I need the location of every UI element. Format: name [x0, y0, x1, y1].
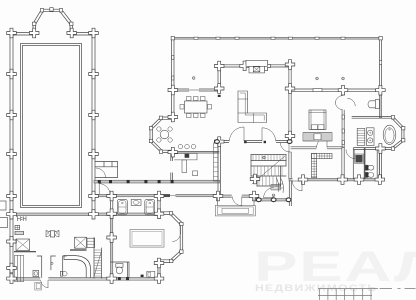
- wall veranda east post: [289, 181, 291, 206]
- washing machine utility: [33, 270, 39, 276]
- stairs main hall treads upper: [253, 155, 283, 161]
- cabinet garage: [147, 271, 155, 277]
- threshold marks utility bottom: [118, 275, 144, 281]
- wall pool hall top right segment: [71, 33, 95, 36]
- closet shelves checkered: [312, 153, 333, 177]
- grid table bottom right: [318, 289, 416, 300]
- door gap hall south: [232, 194, 242, 198]
- stairs utility ladder left: [15, 256, 24, 282]
- piers pool hall left wall: [7, 28, 17, 283]
- wall corridor south dark segment: [160, 194, 170, 197]
- symbol HH pool: [16, 216, 26, 221]
- sofa living room: [238, 91, 267, 123]
- toilet wc upper: [365, 165, 374, 170]
- round table nook: [157, 127, 173, 142]
- wall bath bay outer: [393, 116, 404, 149]
- wall living east: [289, 63, 292, 142]
- door gap rightwing south: [293, 178, 303, 182]
- symbol c utility: [51, 262, 53, 264]
- vanity between baths: [131, 200, 141, 206]
- square markers pool bay corners: [33, 8, 74, 26]
- toilet wc lower: [365, 172, 374, 177]
- door arc closet: [317, 137, 327, 147]
- bathtub west: [117, 199, 127, 214]
- stairs main hall treads mid: [254, 166, 282, 176]
- toilet garage wc: [116, 264, 123, 274]
- window marker terrace east wall: [380, 61, 382, 65]
- wall bath bay inner: [392, 119, 402, 148]
- fireplace living room: [246, 60, 268, 73]
- wall bedroomwing north: [291, 89, 382, 91]
- door gap living south east: [262, 140, 276, 143]
- bench left edge upper: [0, 201, 6, 210]
- door gap closetrow north: [317, 146, 328, 149]
- wall closetrow north: [291, 147, 343, 149]
- door sill dining north: [189, 89, 199, 91]
- wall wc garage partition: [111, 262, 129, 277]
- piers living room walls: [214, 60, 294, 147]
- wall utility rooms left block: [37, 256, 66, 277]
- watermark РЕАЛ logo text: [254, 242, 416, 290]
- wall kitchen west: [171, 152, 173, 180]
- wall pool bay octagon inner: [36, 12, 71, 33]
- door arc veranda to room: [264, 188, 274, 198]
- wall pool hall right outer: [92, 33, 95, 216]
- wall pool hall top left segment: [10, 33, 34, 36]
- bench utility east: [87, 238, 95, 247]
- wall bedroom closet divider: [342, 90, 344, 148]
- bar stools kitchen: [178, 144, 196, 149]
- door arcs bedroom double: [335, 96, 342, 110]
- wall pier bathroom west: [110, 194, 112, 214]
- bathtub oval bay: [383, 125, 396, 144]
- stairs main hall treads low: [259, 176, 277, 186]
- door arc living south west: [229, 127, 244, 141]
- bed master bedroom: [309, 110, 326, 130]
- wall bath north: [352, 116, 393, 118]
- door arc living east to stairs: [280, 143, 289, 152]
- wall pool hall bottom band: [10, 213, 159, 216]
- wall nook octagon outer: [150, 117, 174, 152]
- wall living south: [217, 141, 291, 143]
- dining table: [180, 97, 212, 118]
- wall utility curved outer: [64, 256, 91, 278]
- stairs utility break line: [94, 251, 102, 277]
- wall bath south: [354, 148, 393, 150]
- stairs main hall break line: [252, 156, 285, 184]
- wall garage bay south pier wall: [158, 262, 160, 279]
- piers pool hall right wall: [89, 28, 99, 219]
- mat hall: [271, 184, 281, 190]
- radiator strip hall west: [214, 143, 218, 181]
- door gap utility bottom entrance: [40, 277, 48, 281]
- shaft box west: [14, 239, 36, 252]
- wall pool bay octagon outer: [33, 9, 73, 33]
- table symbol butterfly: [46, 230, 59, 237]
- radiator bath: [357, 128, 365, 145]
- wall hall south: [217, 195, 255, 197]
- wall living north: [219, 65, 291, 67]
- piers corridor bathroom walls: [107, 191, 164, 283]
- stairs utility treads: [94, 250, 102, 276]
- porch steps: [215, 197, 255, 216]
- symbol shelf stack: [15, 225, 24, 234]
- vanity bath double: [366, 128, 374, 146]
- wall terrace west: [172, 37, 174, 117]
- toilet utility: [60, 271, 67, 276]
- wall terrace top edge: [172, 37, 382, 39]
- door arc utility entrance: [41, 280, 48, 287]
- wall utility curved inner: [64, 256, 86, 278]
- shower square wc: [355, 154, 364, 163]
- pool basin outer rim: [21, 44, 82, 208]
- door arc bedroom2: [292, 181, 302, 191]
- stairs main hall rails: [251, 155, 286, 186]
- door gap living south west: [229, 140, 244, 143]
- pier hall south: [213, 174, 260, 201]
- square markers garage bay: [169, 212, 183, 263]
- door gap bedroom divider double: [341, 95, 345, 110]
- door sill corridor south: [170, 195, 176, 197]
- car garage: [130, 230, 164, 248]
- wall rightwing east lower: [379, 149, 381, 180]
- square marker terrace top corners: [171, 37, 382, 40]
- wall pool hall left outer: [10, 33, 13, 280]
- wall corridor north band: [94, 180, 220, 183]
- wall living west upper: [218, 66, 220, 89]
- window markers bedroom closet wall: [342, 115, 344, 145]
- window markers terrace top line: [194, 37, 345, 39]
- bathtub east: [145, 199, 155, 214]
- stairs main curved lower flight: [277, 178, 284, 193]
- kitchen counter: [175, 153, 198, 175]
- square markers bath bay corners: [391, 116, 405, 151]
- dresser master bedroom: [303, 133, 332, 141]
- door arc living south east: [262, 128, 276, 141]
- wall utility bottom band: [10, 277, 160, 280]
- door arc hall south: [232, 197, 242, 206]
- wall terrace east: [380, 37, 382, 90]
- oval columns living south and veranda: [215, 140, 292, 202]
- wall lobby closet lines: [95, 162, 117, 178]
- threshold marks corridor north: [98, 180, 174, 183]
- door arc corridor west: [99, 184, 110, 195]
- wall wc partition: [353, 148, 365, 179]
- wall garage west: [110, 215, 112, 278]
- wall rightwing south band: [289, 178, 382, 181]
- wall veranda south band: [254, 199, 291, 201]
- terrace column dots: [192, 77, 344, 197]
- shaft box east: [70, 237, 87, 250]
- wall utility bottom fill: [10, 277, 160, 280]
- door gap kitchen west: [170, 161, 173, 173]
- window marker bedroomwing north: [313, 89, 322, 92]
- door arc lobby closet: [96, 168, 106, 178]
- wall dressing east: [379, 90, 381, 118]
- threshold marks living south: [218, 95, 266, 143]
- door leaf garage side: [173, 225, 181, 242]
- square markers nook corners: [149, 116, 162, 153]
- wall corridor south band: [94, 194, 220, 196]
- door arc bath: [346, 150, 355, 159]
- wall bedroom2 west: [289, 152, 292, 179]
- wall wc east inner: [377, 150, 379, 178]
- wall kitchen north: [174, 151, 219, 153]
- door arc dressing entry: [348, 98, 356, 106]
- wall garage bay inner: [160, 214, 180, 259]
- wall nook octagon inner: [152, 119, 174, 150]
- wall garage bay outer: [160, 212, 183, 263]
- wall closetrow divider mid: [342, 148, 345, 179]
- stairs utility rails: [94, 238, 102, 278]
- watermark НЕДВИЖИМОСТЬ text: [255, 283, 377, 293]
- pool basin inner rim: [23, 46, 80, 206]
- toilet dressing room: [368, 100, 379, 109]
- bench left edge lower: [0, 218, 8, 228]
- stairs main hall side rails: [251, 155, 286, 186]
- entrance steps utility: [35, 282, 42, 290]
- window markers terrace west wall: [172, 56, 174, 81]
- wall dining north: [172, 89, 219, 91]
- piers pool hall top wall: [29, 28, 76, 38]
- piers bedroom wing: [285, 85, 385, 184]
- wall pier bathroom east: [158, 194, 160, 214]
- door opening dining north: [189, 88, 199, 91]
- wall hall west: [218, 141, 220, 196]
- piers nook and dining: [168, 85, 178, 157]
- door gap corridor south: [170, 194, 176, 198]
